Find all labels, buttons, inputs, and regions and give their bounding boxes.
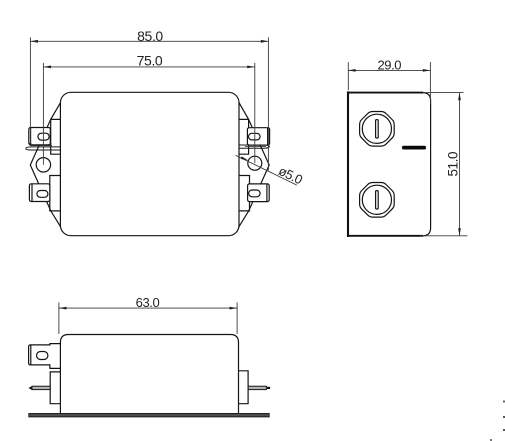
svg-text:63.0: 63.0 [136,295,160,310]
svg-text:29.0: 29.0 [377,58,401,73]
svg-text:85.0: 85.0 [137,28,163,44]
svg-text:51.0: 51.0 [445,152,460,177]
svg-text:75.0: 75.0 [137,53,163,69]
